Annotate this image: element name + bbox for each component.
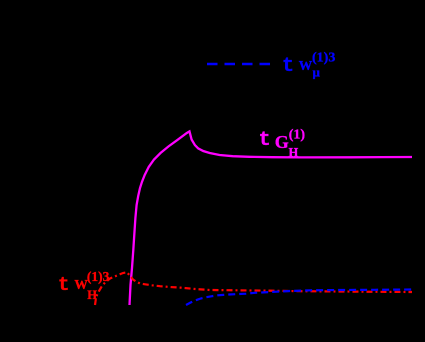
- curve W_H^(1)3 red dash-dot: [95, 272, 412, 305]
- svg-text:W: W: [299, 58, 313, 73]
- label t G_H^(1) magenta: [259, 128, 306, 160]
- legend label t W_mu^(1)3 blue: [282, 51, 335, 80]
- svg-text:t: t: [58, 274, 69, 296]
- svg-text:μ: μ: [313, 65, 321, 80]
- label t W_H^(1)3 red: [58, 269, 110, 302]
- svg-text:(1): (1): [289, 128, 306, 143]
- svg-text:G: G: [275, 132, 289, 152]
- svg-text:t: t: [259, 129, 271, 152]
- svg-text:(1)3: (1)3: [312, 51, 335, 66]
- svg-text:H: H: [87, 288, 97, 302]
- curve G_H^(1) magenta: [130, 131, 413, 305]
- svg-text:(1)3: (1)3: [87, 269, 110, 284]
- curve W_mu^(1)3 blue dashed: [186, 290, 412, 306]
- legend dashed line blue: [207, 63, 270, 65]
- svg-text:t: t: [282, 55, 294, 78]
- svg-text:H: H: [289, 145, 299, 159]
